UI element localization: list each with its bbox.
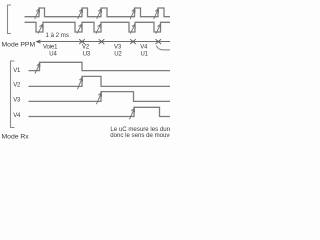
svg-text:V2: V2 xyxy=(13,83,21,89)
svg-text:1 à 2 ms: 1 à 2 ms xyxy=(46,32,69,39)
svg-text:V4: V4 xyxy=(140,44,148,50)
svg-text:U3: U3 xyxy=(83,51,91,57)
svg-text:Voie1: Voie1 xyxy=(43,44,58,50)
svg-text:U4: U4 xyxy=(49,51,57,57)
svg-text:donc le sens de mouve: donc le sens de mouve xyxy=(110,132,170,139)
svg-text:V3: V3 xyxy=(13,98,21,104)
svg-text:Mode Rx: Mode Rx xyxy=(2,133,30,140)
svg-text:V3: V3 xyxy=(114,44,122,50)
svg-text:Mode PPM: Mode PPM xyxy=(2,41,36,48)
svg-text:V2: V2 xyxy=(82,44,90,50)
svg-text:U2: U2 xyxy=(114,51,122,57)
svg-text:U1: U1 xyxy=(141,51,149,57)
svg-text:V1: V1 xyxy=(13,68,21,74)
svg-text:V4: V4 xyxy=(13,113,21,119)
